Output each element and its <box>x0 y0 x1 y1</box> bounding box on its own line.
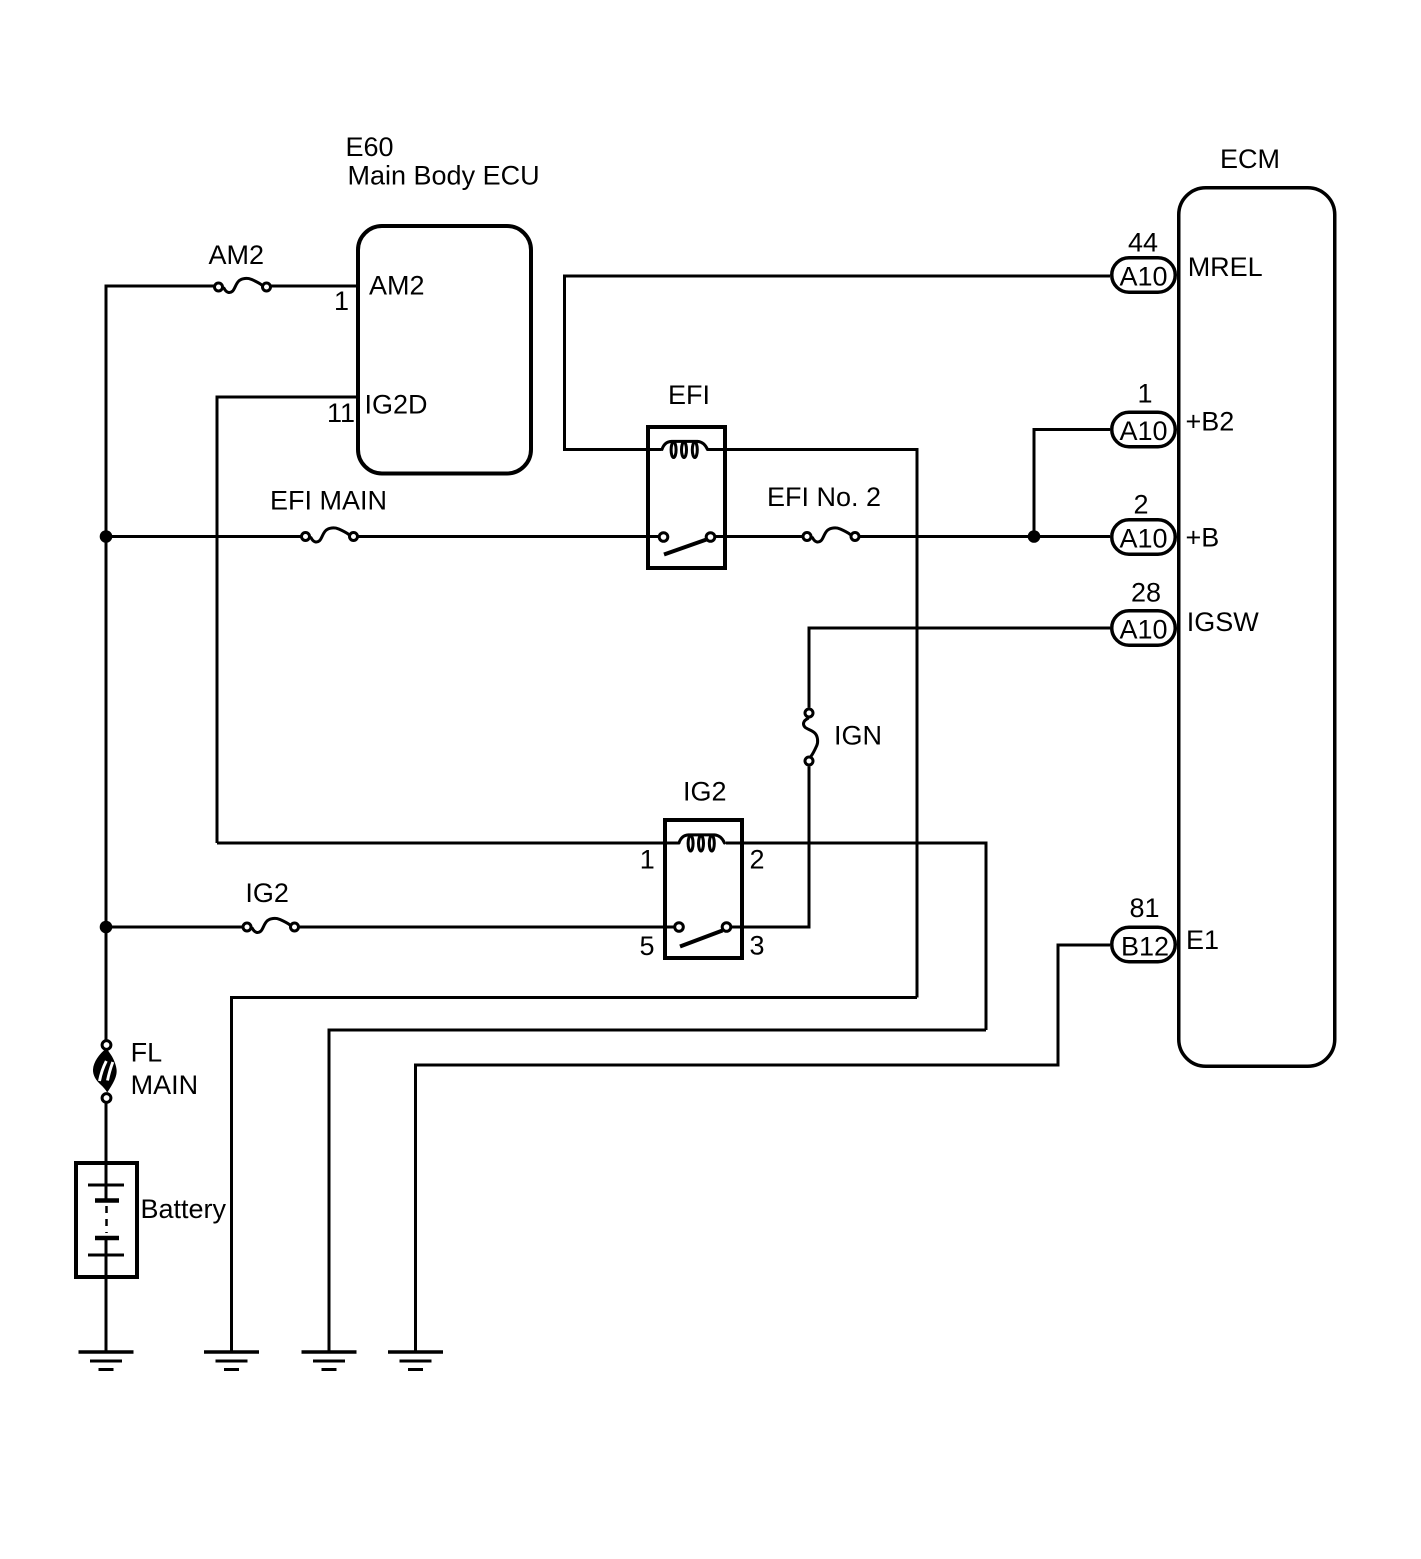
fuse EFI MAIN <box>270 486 387 543</box>
fuse AM2 <box>209 240 271 293</box>
wire MREL: ECM A10-44 to EFI relay coil <box>565 276 1111 450</box>
wire EFI MAIN rail to fuse <box>106 535 301 538</box>
svg-text:IG2D: IG2D <box>365 390 428 420</box>
ground 3 <box>302 1352 357 1370</box>
svg-text:1: 1 <box>640 845 655 875</box>
Main Body ECU E60 box <box>358 226 531 474</box>
wire IG2 fuse to IG2 relay pin 5 <box>299 926 674 929</box>
svg-text:AM2: AM2 <box>209 240 265 270</box>
relay EFI box <box>648 427 725 568</box>
svg-text:2: 2 <box>750 845 765 875</box>
svg-text:Main Body ECU: Main Body ECU <box>348 161 540 191</box>
junction dot left rail at EFI MAIN <box>100 530 113 543</box>
relay IG2 coil <box>679 835 725 851</box>
svg-text:81: 81 <box>1129 893 1159 923</box>
wire EFI relay coil pin2 down to ground rail <box>708 450 917 998</box>
svg-text:A10: A10 <box>1119 416 1167 446</box>
svg-text:EFI No. 2: EFI No. 2 <box>767 482 881 512</box>
svg-text:+B: +B <box>1186 523 1220 553</box>
svg-text:A10: A10 <box>1119 262 1167 292</box>
svg-text:A10: A10 <box>1119 524 1167 554</box>
wire FL MAIN to battery <box>105 1103 108 1186</box>
wire ground rail 3 <box>329 1030 986 1352</box>
fuse EFI No. 2 <box>767 482 881 542</box>
relay EFI coil <box>662 441 708 457</box>
svg-text:FL: FL <box>131 1038 163 1068</box>
svg-text:11: 11 <box>327 398 355 428</box>
svg-text:3: 3 <box>750 931 765 961</box>
svg-text:MREL: MREL <box>1188 252 1263 282</box>
junction dot +B branch <box>1028 530 1041 543</box>
fuse IGN <box>803 709 882 765</box>
E60 pin label IG2D pin 11 <box>327 390 428 429</box>
svg-text:EFI MAIN: EFI MAIN <box>270 486 387 516</box>
battery <box>76 1163 227 1277</box>
relay IG2 pin numbers <box>639 845 764 962</box>
E60 pin label AM2 pin 1 <box>334 271 425 317</box>
connector A10 pin 28 IGSW <box>1112 578 1260 646</box>
svg-text:IGN: IGN <box>834 721 882 751</box>
wire ground rail 2 <box>232 998 918 1353</box>
svg-text:1: 1 <box>334 286 349 316</box>
svg-text:28: 28 <box>1131 578 1161 608</box>
svg-text:ECM: ECM <box>1220 144 1280 174</box>
svg-text:2: 2 <box>1133 490 1148 520</box>
svg-text:E1: E1 <box>1186 925 1219 955</box>
svg-text:A10: A10 <box>1119 615 1167 645</box>
svg-text:B12: B12 <box>1121 932 1169 962</box>
wire +B2 branch <box>1034 430 1110 537</box>
svg-text:+B2: +B2 <box>1186 407 1235 437</box>
ground 2 <box>204 1352 259 1370</box>
ground 1 (battery) <box>79 1352 134 1370</box>
connector A10 pin 1 +B2 <box>1112 379 1235 447</box>
svg-text:Battery: Battery <box>141 1194 227 1224</box>
fusible link FL MAIN <box>93 1038 198 1103</box>
fuse IG2 <box>243 878 299 933</box>
wire IG2D vertical to IG2 relay coil pin 1 <box>217 842 679 845</box>
svg-text:EFI: EFI <box>668 380 710 410</box>
connector A10 pin 44 MREL <box>1112 228 1263 293</box>
svg-text:MAIN: MAIN <box>131 1070 199 1100</box>
wire IGSW: IGN fuse to ECM <box>809 628 1110 708</box>
wire EFI No.2 fuse to ECM +B <box>860 535 1111 538</box>
svg-text:IG2: IG2 <box>683 777 727 807</box>
wire battery to ground 1 <box>105 1255 108 1352</box>
svg-text:44: 44 <box>1128 228 1158 258</box>
wire EFI relay switch out to EFI No.2 fuse <box>716 535 803 538</box>
wire AM2 fuse to E60 pin 1 <box>271 285 356 288</box>
ground 4 <box>388 1352 443 1370</box>
wire rail to IG2 fuse <box>106 926 243 929</box>
ECM box <box>1179 188 1335 1067</box>
connector B12 pin 81 E1 <box>1112 893 1219 962</box>
wire IG2 relay coil pin2 to ground rail <box>726 843 986 1030</box>
wire left rail top segment <box>106 286 214 1041</box>
relay IG2 switch <box>675 923 731 947</box>
wire EFI MAIN fuse to EFI relay switch <box>358 535 659 538</box>
svg-text:IGSW: IGSW <box>1187 607 1260 637</box>
junction dot left rail at IG2 fuse <box>100 921 113 934</box>
wire E60 IG2D pin 11 to vertical <box>217 397 356 843</box>
svg-text:E60: E60 <box>346 132 394 162</box>
label E60 title <box>346 132 540 191</box>
svg-text:AM2: AM2 <box>369 271 425 301</box>
wire E1: ECM B12 to ground 4 <box>416 945 1111 1352</box>
wire IGN fuse down to IG2 relay pin 3 <box>732 767 809 928</box>
relay EFI switch <box>659 533 715 555</box>
svg-text:1: 1 <box>1137 379 1152 409</box>
connector A10 pin 2 +B <box>1112 490 1220 555</box>
svg-text:5: 5 <box>639 931 654 961</box>
svg-text:IG2: IG2 <box>245 878 289 908</box>
relay IG2 box <box>665 820 742 958</box>
